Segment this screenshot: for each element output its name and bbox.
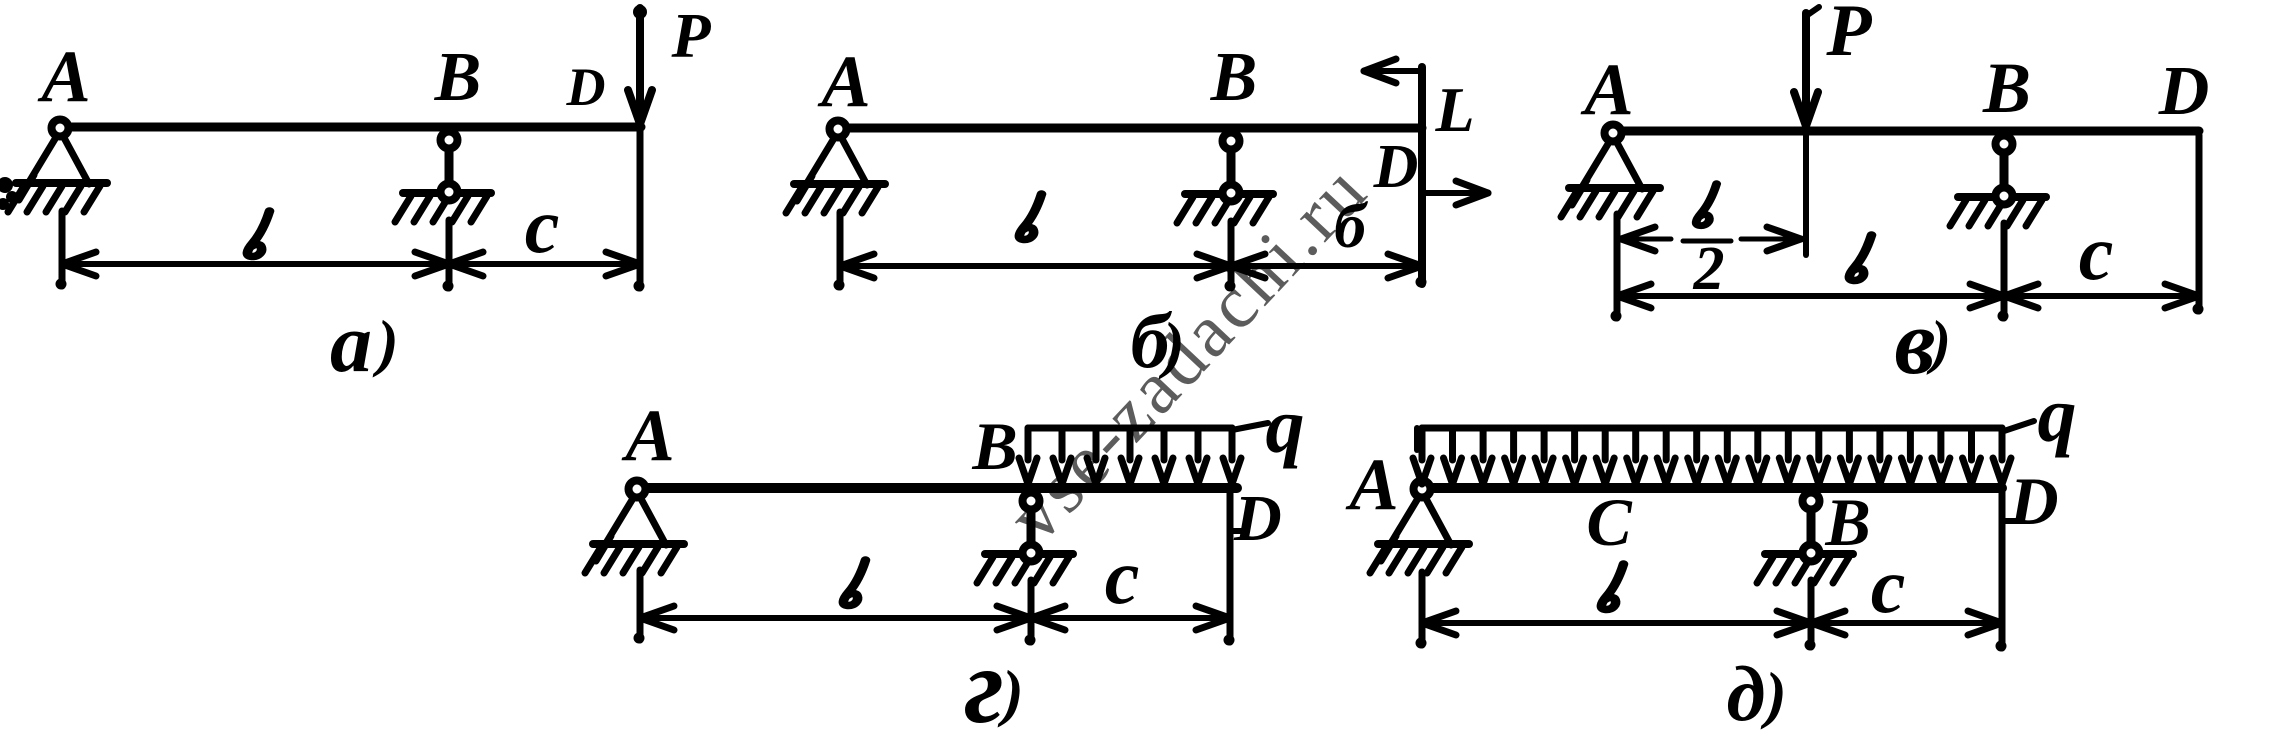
svg-text:2: 2 [1693,235,1725,303]
svg-text:а: а [330,297,372,390]
svg-text:D: D [2008,463,2058,539]
svg-text:B: B [1824,484,1870,560]
svg-text:A: A [817,41,870,123]
svg-text:q: q [2038,371,2077,458]
svg-text:D: D [2158,53,2210,130]
svg-text:c: c [1871,542,1906,629]
svg-text:D: D [1233,482,1282,555]
svg-text:c: c [1105,533,1140,620]
svg-text:B: B [1982,48,2031,128]
svg-text:A: A [1580,49,1633,131]
svg-text:A: A [1345,444,1398,526]
svg-text:B: B [1210,39,1258,116]
svg-text:г: г [964,627,1004,739]
svg-text:в: в [1894,291,1935,393]
svg-text:c: c [2079,209,2114,296]
svg-text:P: P [670,0,711,71]
svg-text:D: D [566,57,606,117]
svg-text:c: c [525,182,560,269]
svg-text:q: q [1266,382,1305,469]
svg-text:P: P [1825,0,1872,72]
svg-text:б: б [1334,190,1369,261]
svg-text:A: A [621,395,674,477]
svg-text:B: B [434,39,482,116]
svg-text:L: L [1434,74,1474,145]
svg-text:D: D [1373,133,1419,201]
svg-text:B: B [971,408,1017,484]
svg-text:A: A [37,36,90,118]
svg-text:д: д [1727,650,1766,737]
svg-text:C: C [1586,484,1632,560]
